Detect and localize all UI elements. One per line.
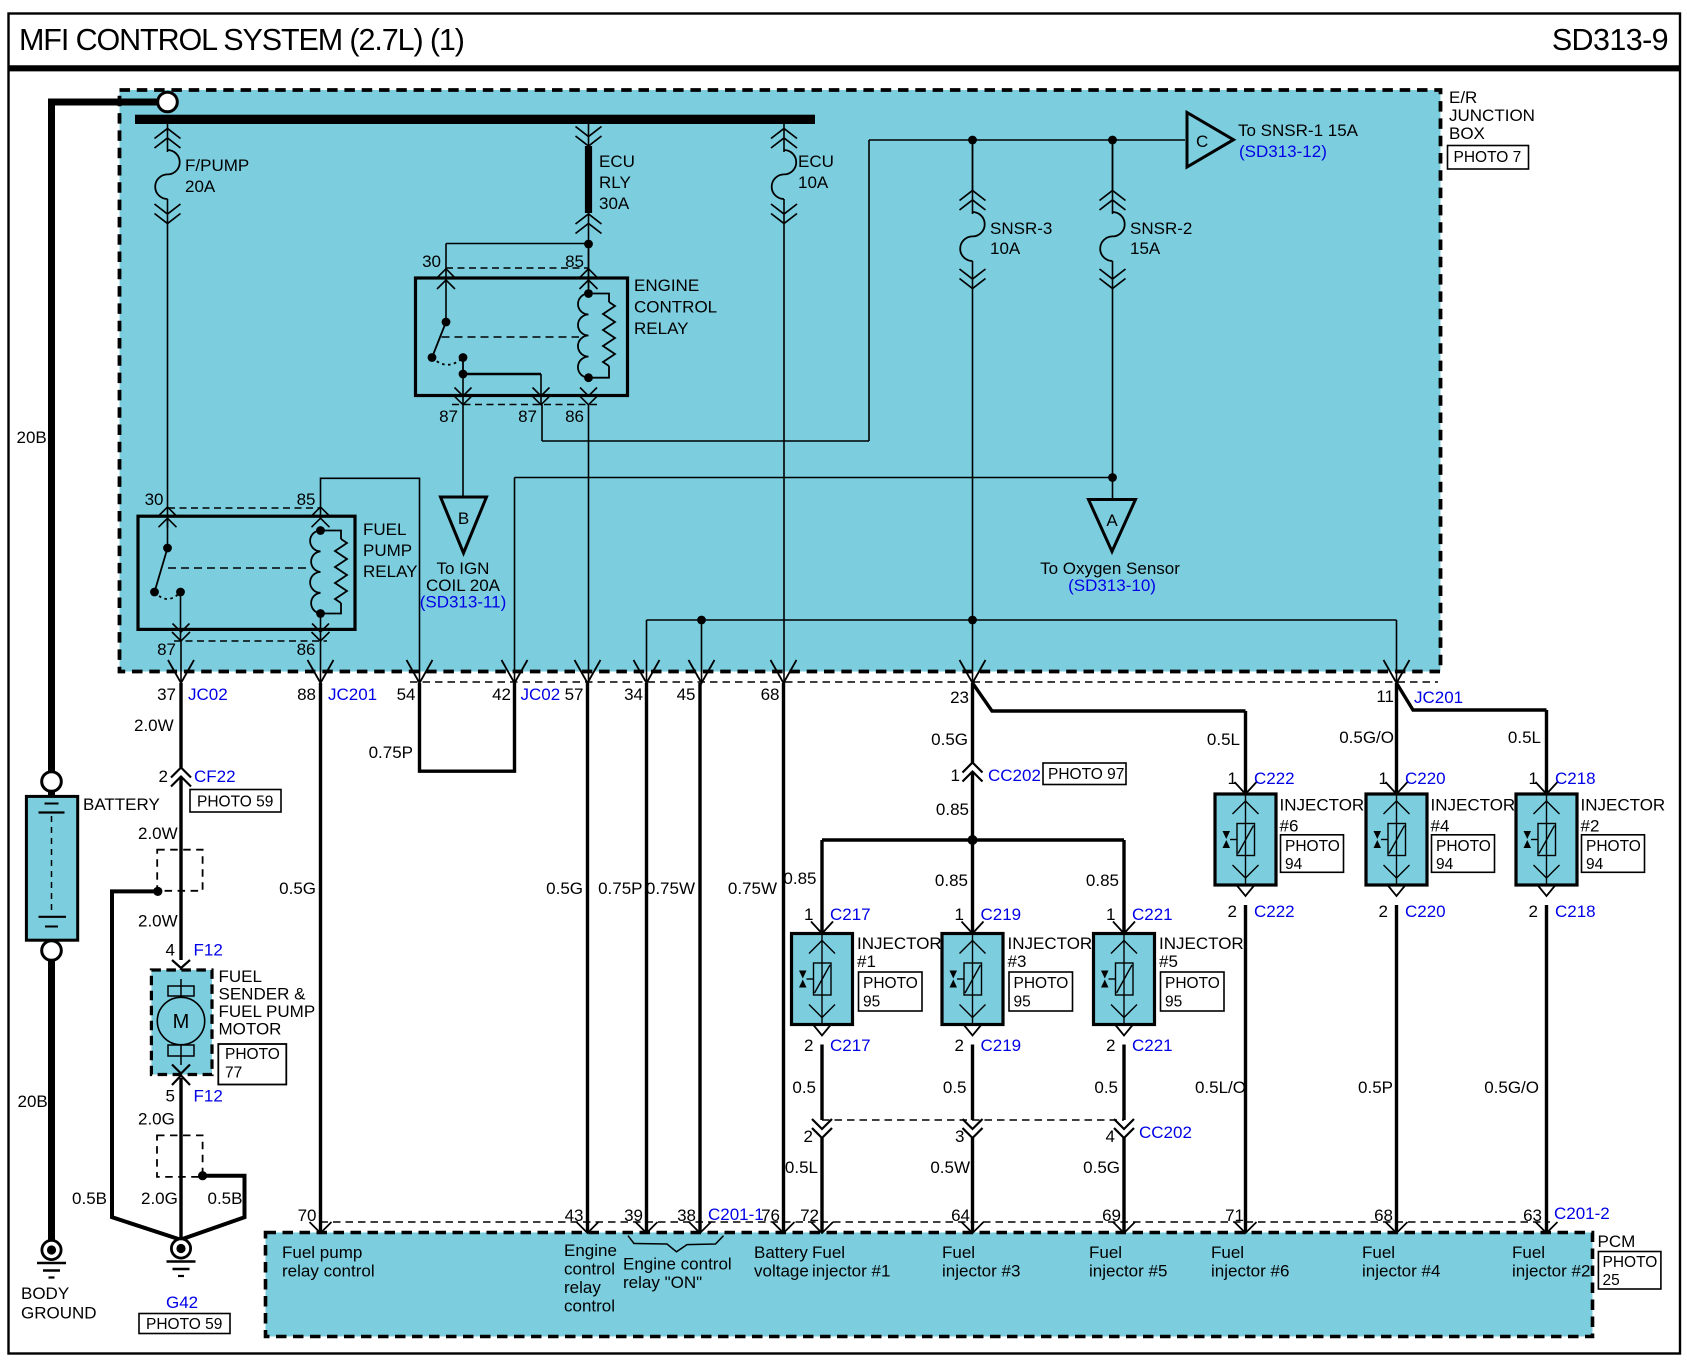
svg-text:2.0W: 2.0W — [134, 716, 174, 735]
svg-text:54: 54 — [397, 685, 416, 704]
svg-text:94: 94 — [1436, 856, 1454, 873]
svg-text:0.5G/O: 0.5G/O — [1484, 1078, 1539, 1097]
svg-text:C219: C219 — [981, 1036, 1022, 1055]
svg-text:4: 4 — [1106, 1127, 1115, 1146]
svg-text:CONTROL: CONTROL — [634, 298, 717, 317]
svg-text:2.0W: 2.0W — [138, 912, 178, 931]
svg-text:20B: 20B — [18, 1092, 48, 1111]
svg-text:PCM: PCM — [1598, 1232, 1636, 1251]
svg-text:Fuel: Fuel — [812, 1243, 845, 1262]
svg-text:ENGINE: ENGINE — [634, 276, 699, 295]
svg-text:0.5W: 0.5W — [930, 1158, 970, 1177]
svg-text:64: 64 — [951, 1206, 970, 1225]
svg-text:Engine control: Engine control — [623, 1255, 732, 1274]
svg-text:FUEL PUMP: FUEL PUMP — [219, 1002, 316, 1021]
svg-text:injector #3: injector #3 — [942, 1262, 1020, 1281]
svg-text:72: 72 — [800, 1206, 819, 1225]
svg-text:45: 45 — [677, 685, 696, 704]
svg-text:38: 38 — [677, 1206, 696, 1225]
svg-text:1: 1 — [1529, 769, 1538, 788]
svg-text:JC02: JC02 — [188, 685, 228, 704]
svg-text:0.5B: 0.5B — [208, 1189, 243, 1208]
svg-text:69: 69 — [1102, 1206, 1121, 1225]
svg-text:30A: 30A — [599, 194, 630, 213]
svg-text:0.5L: 0.5L — [785, 1158, 818, 1177]
svg-text:34: 34 — [624, 685, 643, 704]
svg-text:C218: C218 — [1555, 902, 1596, 921]
svg-text:F12: F12 — [194, 941, 223, 960]
svg-text:C217: C217 — [830, 1036, 871, 1055]
svg-text:0.5G: 0.5G — [546, 879, 583, 898]
svg-text:GROUND: GROUND — [21, 1304, 97, 1323]
svg-text:0.85: 0.85 — [1086, 871, 1119, 890]
svg-text:INJECTOR: INJECTOR — [1431, 796, 1516, 815]
svg-text:E/R: E/R — [1449, 88, 1477, 107]
svg-text:Battery: Battery — [754, 1243, 808, 1262]
svg-text:77: 77 — [225, 1065, 242, 1082]
svg-text:C: C — [1196, 132, 1208, 151]
svg-text:M: M — [173, 1011, 190, 1033]
svg-text:11: 11 — [1376, 687, 1394, 706]
svg-text:#4: #4 — [1431, 817, 1450, 836]
svg-text:2: 2 — [1106, 1036, 1115, 1055]
svg-text:RELAY: RELAY — [634, 319, 689, 338]
svg-text:37: 37 — [157, 685, 176, 704]
svg-text:0.5: 0.5 — [1094, 1078, 1118, 1097]
svg-text:30: 30 — [422, 252, 441, 271]
svg-text:MOTOR: MOTOR — [219, 1020, 282, 1039]
svg-text:B: B — [458, 509, 469, 528]
svg-text:JC02: JC02 — [521, 685, 561, 704]
svg-text:63: 63 — [1523, 1206, 1542, 1225]
svg-text:C218: C218 — [1555, 769, 1596, 788]
svg-text:0.5G: 0.5G — [1083, 1158, 1120, 1177]
svg-text:0.5: 0.5 — [943, 1078, 967, 1097]
svg-text:71: 71 — [1225, 1206, 1244, 1225]
svg-text:CC202: CC202 — [1139, 1123, 1192, 1142]
svg-text:INJECTOR: INJECTOR — [1159, 934, 1244, 953]
svg-text:FUEL: FUEL — [363, 520, 406, 539]
svg-text:INJECTOR: INJECTOR — [1581, 796, 1666, 815]
svg-text:#3: #3 — [1008, 952, 1027, 971]
svg-text:86: 86 — [297, 640, 316, 659]
svg-text:57: 57 — [565, 685, 584, 704]
svg-text:43: 43 — [565, 1206, 584, 1225]
svg-text:86: 86 — [565, 407, 584, 426]
svg-text:2: 2 — [955, 1036, 964, 1055]
svg-text:relay: relay — [564, 1278, 601, 1297]
svg-text:0.5L: 0.5L — [1508, 728, 1541, 747]
svg-text:0.75W: 0.75W — [728, 879, 777, 898]
svg-text:30: 30 — [145, 490, 164, 509]
svg-text:JC201: JC201 — [328, 685, 377, 704]
svg-text:PHOTO: PHOTO — [1285, 838, 1340, 855]
svg-text:2: 2 — [1228, 902, 1237, 921]
svg-text:1: 1 — [1106, 905, 1115, 924]
svg-text:0.5G: 0.5G — [931, 730, 968, 749]
svg-text:injector #4: injector #4 — [1362, 1262, 1440, 1281]
svg-text:PHOTO: PHOTO — [1603, 1254, 1658, 1271]
svg-text:To SNSR-1 15A: To SNSR-1 15A — [1238, 121, 1359, 140]
svg-text:0.5G/O: 0.5G/O — [1339, 728, 1394, 747]
svg-text:85: 85 — [297, 490, 316, 509]
svg-text:2: 2 — [1379, 902, 1388, 921]
svg-text:C201-2: C201-2 — [1554, 1204, 1610, 1223]
svg-text:94: 94 — [1586, 856, 1604, 873]
svg-text:SENDER &: SENDER & — [219, 985, 307, 1004]
svg-text:87: 87 — [518, 407, 537, 426]
svg-text:1: 1 — [1228, 769, 1237, 788]
svg-text:JUNCTION: JUNCTION — [1449, 106, 1535, 125]
svg-text:control: control — [564, 1297, 615, 1316]
svg-text:injector #5: injector #5 — [1089, 1262, 1167, 1281]
svg-text:#2: #2 — [1581, 817, 1600, 836]
svg-text:PHOTO: PHOTO — [1586, 838, 1641, 855]
svg-text:relay control: relay control — [282, 1262, 375, 1281]
svg-text:Fuel: Fuel — [942, 1243, 975, 1262]
svg-text:injector #1: injector #1 — [812, 1262, 890, 1281]
svg-text:voltage: voltage — [754, 1262, 809, 1281]
svg-text:20A: 20A — [185, 177, 216, 196]
svg-text:PHOTO 59: PHOTO 59 — [197, 794, 273, 811]
svg-text:#6: #6 — [1280, 817, 1299, 836]
svg-text:0.85: 0.85 — [935, 871, 968, 890]
svg-text:A: A — [1106, 511, 1118, 530]
svg-text:25: 25 — [1603, 1272, 1620, 1289]
svg-text:injector #2: injector #2 — [1512, 1262, 1590, 1281]
svg-text:42: 42 — [492, 685, 511, 704]
svg-text:G42: G42 — [166, 1293, 198, 1312]
svg-text:68: 68 — [1374, 1206, 1393, 1225]
svg-text:BOX: BOX — [1449, 124, 1485, 143]
svg-text:2.0W: 2.0W — [138, 824, 178, 843]
svg-text:39: 39 — [624, 1206, 643, 1225]
svg-text:20B: 20B — [17, 428, 47, 447]
svg-text:5: 5 — [166, 1087, 175, 1106]
svg-text:control: control — [564, 1260, 615, 1279]
svg-text:F12: F12 — [194, 1087, 223, 1106]
svg-text:0.5P: 0.5P — [1358, 1078, 1393, 1097]
svg-text:1: 1 — [955, 905, 964, 924]
svg-text:70: 70 — [298, 1206, 317, 1225]
svg-text:Fuel: Fuel — [1512, 1243, 1545, 1262]
svg-text:2.0G: 2.0G — [141, 1189, 178, 1208]
svg-text:1: 1 — [951, 766, 960, 785]
svg-text:0.75P: 0.75P — [369, 743, 413, 762]
svg-text:#5: #5 — [1159, 952, 1178, 971]
svg-text:68: 68 — [761, 685, 780, 704]
svg-text:C222: C222 — [1254, 769, 1295, 788]
svg-text:(SD313-10): (SD313-10) — [1068, 576, 1156, 595]
svg-text:2: 2 — [159, 767, 168, 786]
svg-text:relay "ON": relay "ON" — [623, 1273, 702, 1292]
svg-text:C219: C219 — [981, 905, 1022, 924]
svg-text:Fuel: Fuel — [1211, 1243, 1244, 1262]
svg-text:PHOTO: PHOTO — [225, 1046, 280, 1063]
svg-text:BATTERY: BATTERY — [83, 795, 160, 814]
svg-text:RLY: RLY — [599, 173, 631, 192]
svg-text:0.75W: 0.75W — [646, 879, 695, 898]
svg-text:ECU: ECU — [798, 152, 834, 171]
svg-text:2: 2 — [1529, 902, 1538, 921]
svg-text:1: 1 — [804, 905, 813, 924]
svg-text:CC202: CC202 — [988, 766, 1041, 785]
svg-text:0.5: 0.5 — [792, 1078, 816, 1097]
svg-text:95: 95 — [863, 994, 880, 1011]
svg-text:MFI CONTROL SYSTEM (2.7L) (1): MFI CONTROL SYSTEM (2.7L) (1) — [19, 23, 464, 57]
svg-text:94: 94 — [1285, 856, 1303, 873]
svg-text:10A: 10A — [798, 173, 829, 192]
svg-text:0.85: 0.85 — [783, 869, 816, 888]
svg-text:#1: #1 — [857, 952, 876, 971]
svg-text:15A: 15A — [1130, 239, 1161, 258]
svg-text:87: 87 — [157, 640, 176, 659]
svg-text:C221: C221 — [1132, 1036, 1173, 1055]
svg-text:Engine: Engine — [564, 1241, 617, 1260]
svg-text:CF22: CF22 — [194, 767, 236, 786]
svg-text:(SD313-12): (SD313-12) — [1239, 142, 1327, 161]
svg-text:C222: C222 — [1254, 902, 1295, 921]
svg-text:PHOTO 97: PHOTO 97 — [1048, 766, 1124, 783]
svg-text:10A: 10A — [990, 239, 1021, 258]
svg-text:PHOTO: PHOTO — [1165, 975, 1220, 992]
svg-text:PUMP: PUMP — [363, 541, 412, 560]
svg-text:23: 23 — [950, 688, 969, 707]
svg-text:INJECTOR: INJECTOR — [1280, 796, 1365, 815]
svg-text:PHOTO 7: PHOTO 7 — [1454, 149, 1522, 166]
svg-text:76: 76 — [761, 1206, 780, 1225]
svg-text:95: 95 — [1014, 994, 1031, 1011]
svg-text:4: 4 — [166, 941, 175, 960]
svg-text:C221: C221 — [1132, 905, 1173, 924]
svg-text:0.5B: 0.5B — [72, 1189, 107, 1208]
svg-text:1: 1 — [1379, 769, 1388, 788]
svg-text:0.85: 0.85 — [936, 800, 969, 819]
svg-text:88: 88 — [297, 685, 316, 704]
svg-text:3: 3 — [955, 1127, 964, 1146]
svg-text:2.0G: 2.0G — [138, 1110, 175, 1129]
svg-text:Fuel: Fuel — [1362, 1243, 1395, 1262]
svg-text:C201-1: C201-1 — [708, 1205, 764, 1224]
svg-text:RELAY: RELAY — [363, 562, 418, 581]
svg-text:injector #6: injector #6 — [1211, 1262, 1289, 1281]
svg-text:INJECTOR: INJECTOR — [1008, 934, 1093, 953]
svg-text:ECU: ECU — [599, 152, 635, 171]
svg-text:PHOTO: PHOTO — [1436, 838, 1491, 855]
svg-text:FUEL: FUEL — [219, 967, 262, 986]
svg-text:C220: C220 — [1405, 902, 1446, 921]
svg-text:JC201: JC201 — [1414, 688, 1463, 707]
svg-text:C220: C220 — [1405, 769, 1446, 788]
svg-text:2: 2 — [804, 1036, 813, 1055]
svg-text:BODY: BODY — [21, 1284, 69, 1303]
svg-text:PHOTO: PHOTO — [1014, 975, 1069, 992]
svg-text:0.5L/O: 0.5L/O — [1195, 1078, 1246, 1097]
svg-text:SNSR-2: SNSR-2 — [1130, 219, 1192, 238]
svg-text:PHOTO: PHOTO — [863, 975, 918, 992]
svg-text:SD313-9: SD313-9 — [1552, 23, 1668, 57]
svg-text:(SD313-11): (SD313-11) — [420, 593, 507, 612]
svg-text:Fuel pump: Fuel pump — [282, 1243, 362, 1262]
svg-text:87: 87 — [439, 407, 458, 426]
svg-text:0.75P: 0.75P — [598, 879, 642, 898]
svg-text:Fuel: Fuel — [1089, 1243, 1122, 1262]
svg-text:0.5G: 0.5G — [279, 879, 316, 898]
svg-text:C217: C217 — [830, 905, 871, 924]
svg-text:INJECTOR: INJECTOR — [857, 934, 942, 953]
svg-text:PHOTO 59: PHOTO 59 — [146, 1316, 222, 1333]
svg-text:2: 2 — [804, 1127, 813, 1146]
svg-text:SNSR-3: SNSR-3 — [990, 219, 1052, 238]
svg-text:95: 95 — [1165, 994, 1182, 1011]
svg-text:0.5L: 0.5L — [1207, 730, 1240, 749]
svg-text:F/PUMP: F/PUMP — [185, 156, 249, 175]
